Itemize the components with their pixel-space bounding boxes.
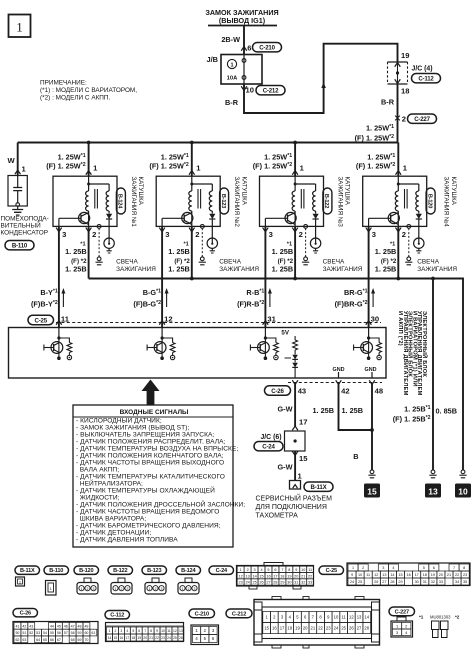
svg-text:15: 15 (264, 626, 269, 631)
connector oval C-112 (bottom strip) (105, 611, 130, 619)
svg-text:КАТУШКА: КАТУШКА (450, 177, 457, 206)
svg-text:31: 31 (423, 580, 427, 584)
svg-text:1: 1 (109, 629, 111, 633)
connector oval B-110 (5, 241, 34, 250)
svg-text:13: 13 (357, 615, 362, 620)
svg-text:2: 2 (87, 587, 89, 591)
connector drawing C-26 grid (13, 622, 98, 644)
svg-text:19: 19 (401, 51, 409, 60)
svg-text:3: 3 (194, 587, 196, 591)
svg-text:НЕЙТРАЛИЗАТОРА;: НЕЙТРАЛИЗАТОРА; (76, 479, 143, 488)
svg-text:C-212: C-212 (232, 611, 246, 617)
svg-text:16: 16 (266, 574, 270, 578)
svg-text:1: 1 (115, 587, 117, 591)
svg-text:3: 3 (93, 587, 95, 591)
svg-text:*1: *1 (419, 615, 424, 620)
ECU name vertical text (397, 311, 429, 396)
wire coil №3 pin3 to ECU pin 31 (237, 226, 277, 327)
svg-text:(F) 1. 25W*2: (F) 1. 25W*2 (149, 162, 188, 171)
svg-text:B-R: B-R (225, 98, 239, 107)
svg-text:1. 25B: 1. 25B (313, 406, 335, 415)
coil name label №2 (233, 177, 247, 228)
svg-text:1: 1 (182, 587, 184, 591)
connector oval B-11X (bottom strip) (15, 566, 40, 574)
svg-text:19: 19 (137, 636, 141, 640)
svg-text:(F) 1. 25W*2: (F) 1. 25W*2 (253, 162, 292, 171)
ECU driver transistor stage 3 (250, 324, 278, 360)
connector drawing C-25 grid (347, 563, 470, 586)
svg-text:1. 25B: 1. 25B (168, 264, 190, 273)
svg-text:23: 23 (463, 573, 467, 577)
svg-text:16: 16 (272, 626, 277, 631)
svg-text:8: 8 (150, 629, 152, 633)
svg-text:2: 2 (247, 568, 249, 572)
ignition coil unit №4 (B-120) (356, 143, 457, 279)
svg-text:30: 30 (415, 580, 419, 584)
svg-text:43: 43 (298, 387, 306, 396)
connector drawing B-11X (16, 577, 25, 586)
svg-text:2: 2 (155, 587, 157, 591)
svg-text:6: 6 (247, 44, 251, 53)
svg-text:62: 62 (15, 638, 19, 642)
svg-text:22: 22 (455, 573, 459, 577)
svg-text:1. 25B: 1. 25B (375, 264, 397, 273)
svg-text:9: 9 (295, 568, 297, 572)
svg-text:61: 61 (91, 631, 95, 635)
svg-text:11: 11 (308, 568, 312, 572)
svg-text:29: 29 (398, 580, 402, 584)
wire label B-R right (381, 98, 395, 107)
svg-text:3: 3 (382, 566, 384, 570)
pin 2 connector C-227 (395, 114, 436, 124)
svg-text:B-120: B-120 (79, 568, 93, 574)
svg-text:11: 11 (366, 573, 370, 577)
ground 15 (364, 470, 380, 498)
svg-text:15: 15 (259, 574, 263, 578)
svg-text:19: 19 (287, 574, 291, 578)
svg-text:2: 2 (188, 587, 190, 591)
svg-text:3: 3 (62, 230, 66, 239)
connector oval C-212 (bottom strip) (226, 609, 252, 618)
ignition coil unit №1 (B-124) (46, 141, 156, 279)
ignition coil unit №2 (B-123) (149, 141, 259, 279)
connector drawing B-120 (3-pin coil connector) (77, 578, 98, 594)
joint connector J/C(6) C-24 (254, 431, 308, 481)
svg-text:1: 1 (16, 20, 23, 35)
svg-text:C-227: C-227 (395, 609, 409, 615)
svg-text:23: 23 (326, 626, 331, 631)
svg-text:20: 20 (439, 573, 443, 577)
connector oval C-210 (bottom strip) (189, 609, 215, 618)
svg-text:8: 8 (288, 568, 290, 572)
svg-text:25: 25 (173, 636, 177, 640)
svg-text:21: 21 (301, 574, 305, 578)
svg-text:14: 14 (364, 615, 369, 620)
connector oval B-110 (bottom strip) (44, 566, 69, 574)
svg-text:13: 13 (382, 573, 386, 577)
svg-text:(*2) : МОДЕЛИ С АКПП.: (*2) : МОДЕЛИ С АКПП. (40, 95, 110, 102)
svg-text:ШКИВА ВАРИАТОРА;: ШКИВА ВАРИАТОРА; (76, 516, 146, 523)
svg-text:18: 18 (423, 573, 427, 577)
svg-text:ЗАЖИГАНИЯ №4: ЗАЖИГАНИЯ №4 (443, 177, 450, 228)
coil connector oval B-124 (116, 188, 125, 214)
svg-text:68: 68 (71, 638, 75, 642)
svg-text:2: 2 (299, 230, 303, 239)
svg-text:13: 13 (428, 486, 438, 496)
svg-text:B-R: B-R (381, 98, 395, 107)
svg-text:4: 4 (260, 568, 262, 572)
svg-text:B-110: B-110 (12, 243, 28, 250)
svg-text:1: 1 (240, 568, 242, 572)
svg-text:29: 29 (280, 581, 284, 585)
ignition coil unit №3 (B-122) (253, 141, 363, 279)
svg-text:1: 1 (81, 587, 83, 591)
svg-text:B-11X: B-11X (20, 568, 35, 574)
svg-text:B: B (353, 452, 358, 461)
svg-text:2: 2 (92, 230, 96, 239)
svg-text:J/C (6): J/C (6) (260, 434, 281, 441)
svg-text:23: 23 (239, 581, 243, 585)
svg-text:- ДАТЧИК ЧАСТОТЫ ВРАЩЕНИЯ ВЕДО: - ДАТЧИК ЧАСТОТЫ ВРАЩЕНИЯ ВЕДОМОГО (76, 509, 219, 516)
svg-text:5: 5 (423, 566, 425, 570)
svg-text:ЗАЖИГАНИЯ №1: ЗАЖИГАНИЯ №1 (130, 177, 137, 228)
svg-text:48: 48 (375, 387, 383, 396)
note MU801303 terminals (419, 615, 460, 638)
svg-text:C-26: C-26 (271, 388, 284, 395)
svg-text:27: 27 (357, 626, 362, 631)
svg-text:14: 14 (252, 574, 256, 578)
svg-text:10A: 10A (227, 76, 238, 82)
ECU bottom connector rail C-26 (265, 380, 384, 395)
svg-text:GND: GND (365, 367, 377, 373)
svg-text:7: 7 (281, 568, 283, 572)
svg-text:- ЗАМОК ЗАЖИГАНИЯ (ВЫВОД ST);: - ЗАМОК ЗАЖИГАНИЯ (ВЫВОД ST); (76, 425, 189, 432)
svg-text:49: 49 (84, 624, 88, 628)
svg-text:11: 11 (167, 629, 171, 633)
svg-text:53: 53 (36, 631, 40, 635)
svg-text:СВЕЧА: СВЕЧА (116, 259, 138, 266)
svg-text:ЗАЖИГАНИЯ №2: ЗАЖИГАНИЯ №2 (233, 177, 240, 228)
svg-text:B-123: B-123 (220, 194, 226, 208)
svg-text:15: 15 (367, 486, 377, 496)
svg-text:1: 1 (149, 587, 151, 591)
svg-text:C-212: C-212 (263, 88, 279, 95)
svg-text:32: 32 (301, 581, 305, 585)
svg-text:B-120: B-120 (426, 194, 432, 208)
svg-text:59: 59 (78, 631, 82, 635)
svg-text:B-124: B-124 (181, 568, 196, 574)
svg-text:17: 17 (125, 636, 129, 640)
svg-text:ВХОДНЫЕ СИГНАЛЫ: ВХОДНЫЕ СИГНАЛЫ (120, 409, 189, 416)
svg-text:- ДАТЧИК ПОЛОЖЕНИЯ КОЛЕНЧАТОГО: - ДАТЧИК ПОЛОЖЕНИЯ КОЛЕНЧАТОГО ВАЛА; (76, 453, 224, 460)
wire coil №2 pin3 to ECU pin 12 (133, 226, 172, 327)
svg-text:8: 8 (463, 566, 465, 570)
svg-text:ЗАЖИГАНИЯ: ЗАЖИГАНИЯ (116, 266, 156, 273)
svg-text:19: 19 (295, 626, 300, 631)
svg-text:G-W: G-W (278, 405, 293, 414)
svg-text:41: 41 (15, 624, 19, 628)
svg-text:22: 22 (308, 574, 312, 578)
supply bus node (18, 142, 399, 144)
svg-text:42: 42 (341, 387, 349, 396)
svg-text:15: 15 (114, 636, 118, 640)
svg-text:16: 16 (119, 636, 123, 640)
wires pins 42/48 to ground 15 (313, 383, 374, 471)
connector drawing B-110 (46, 581, 57, 596)
ECU driver transistor stage 4 (354, 324, 382, 360)
svg-text:17: 17 (273, 574, 277, 578)
svg-text:СЕРВИСНЫЙ РАЗЪЕМ: СЕРВИСНЫЙ РАЗЪЕМ (256, 494, 333, 503)
svg-text:20: 20 (143, 636, 147, 640)
connector drawing B-122 (3-pin coil connector) (111, 578, 132, 594)
ECU 5V pull-up and diodes (pin 43) (281, 330, 297, 379)
ECU driver transistor stage 2 (147, 324, 175, 360)
connector drawing C-24 grid (237, 563, 314, 590)
svg-text:50: 50 (15, 631, 19, 635)
ground 13 (425, 470, 441, 498)
wire coil №4 pin3 to ECU pin 30 (335, 226, 379, 327)
pin 6 connector C-210 (241, 43, 281, 53)
connector oval B-124 (bottom strip) (176, 566, 201, 574)
svg-text:СВЕЧА: СВЕЧА (323, 259, 345, 266)
wire J/B to J/C(4) (244, 44, 398, 113)
svg-text:12: 12 (173, 629, 177, 633)
svg-text:18: 18 (280, 574, 284, 578)
connector oval B-123 (bottom strip) (142, 566, 167, 574)
svg-text:25: 25 (358, 580, 362, 584)
connector oval B-120 (bottom strip) (74, 566, 99, 574)
svg-text:B-122: B-122 (113, 568, 127, 574)
svg-text:1. 25B: 1. 25B (375, 247, 397, 256)
wire pin 43 to J/C(6) (278, 383, 308, 431)
svg-text:СВЕЧА: СВЕЧА (219, 259, 241, 266)
svg-text:28: 28 (390, 580, 394, 584)
svg-text:21: 21 (311, 626, 316, 631)
svg-text:ПОМЕХОПОДА-: ПОМЕХОПОДА- (1, 216, 49, 223)
svg-text:10: 10 (458, 486, 468, 496)
wire label 2B-W (221, 35, 240, 44)
coil connector oval B-120 (426, 188, 435, 214)
svg-text:64: 64 (36, 638, 40, 642)
svg-text:16: 16 (406, 573, 410, 577)
svg-text:60: 60 (84, 631, 88, 635)
svg-text:W: W (8, 156, 16, 165)
svg-text:J/B: J/B (206, 55, 218, 64)
svg-text:7: 7 (453, 566, 455, 570)
svg-text:1. 25B: 1. 25B (65, 247, 87, 256)
ECU driver transistor stage 1 (44, 324, 72, 360)
svg-text:14: 14 (108, 636, 112, 640)
svg-text:2: 2 (195, 230, 199, 239)
svg-text:52: 52 (29, 631, 33, 635)
svg-text:35: 35 (463, 580, 467, 584)
svg-text:10: 10 (246, 86, 254, 95)
svg-text:ЗАЖИГАНИЯ: ЗАЖИГАНИЯ (219, 266, 259, 273)
svg-text:- ДАТЧИК ТЕМПЕРАТУРЫ КАТАЛИТИЧ: - ДАТЧИК ТЕМПЕРАТУРЫ КАТАЛИТИЧЕСКОГО (76, 474, 225, 481)
svg-text:55: 55 (50, 631, 54, 635)
svg-text:15: 15 (299, 454, 308, 463)
svg-text:1. 25B: 1. 25B (342, 406, 364, 415)
connector drawing C-227 (391, 617, 413, 637)
svg-text:(F) 1. 25W*2: (F) 1. 25W*2 (356, 162, 395, 171)
ECU GND pins 42 and 48 (333, 367, 377, 378)
svg-text:15: 15 (398, 573, 402, 577)
svg-text:7: 7 (144, 629, 146, 633)
coil name label №3 (336, 177, 350, 228)
svg-text:- ВЫКЛЮЧАТЕЛЬ ЗАПРЕЩЕНИЯ ЗАПУС: - ВЫКЛЮЧАТЕЛЬ ЗАПРЕЩЕНИЯ ЗАПУСКА; (76, 432, 214, 439)
svg-text:45: 45 (57, 624, 61, 628)
svg-text:24: 24 (334, 626, 339, 631)
svg-text:C-210: C-210 (259, 45, 275, 52)
svg-text:3: 3 (165, 230, 169, 239)
svg-text:5V: 5V (281, 330, 289, 337)
svg-text:ТАХОМЕТРА: ТАХОМЕТРА (256, 513, 299, 520)
svg-text:30: 30 (371, 314, 379, 323)
connector oval C-25 (bottom strip) (319, 566, 344, 574)
svg-text:69: 69 (78, 638, 82, 642)
svg-text:11: 11 (61, 314, 70, 323)
svg-text:3: 3 (127, 587, 129, 591)
svg-text:C-112: C-112 (418, 76, 434, 83)
svg-text:- КИСЛОРОДНЫЙ ДАТЧИК;: - КИСЛОРОДНЫЙ ДАТЧИК; (76, 416, 162, 425)
svg-text:3: 3 (120, 629, 122, 633)
sheet number box 1 (9, 15, 31, 38)
ground bus node (89, 277, 463, 470)
svg-text:10: 10 (358, 573, 362, 577)
svg-text:24: 24 (246, 581, 250, 585)
noise suppression capacitor B-110 (8, 143, 28, 216)
svg-text:19: 19 (431, 573, 435, 577)
svg-text:30: 30 (287, 581, 291, 585)
svg-text:КАТУШКА: КАТУШКА (137, 177, 144, 206)
svg-text:13: 13 (246, 574, 250, 578)
capacitor name text (1, 216, 49, 237)
ECU box (engine control unit) (9, 323, 387, 379)
svg-text:ЗАЖИГАНИЯ: ЗАЖИГАНИЯ (417, 266, 457, 273)
svg-text:26: 26 (374, 580, 378, 584)
svg-text:33: 33 (308, 581, 312, 585)
svg-text:0. 85B: 0. 85B (436, 407, 458, 416)
svg-text:ЗАЖИГАНИЯ: ЗАЖИГАНИЯ (323, 266, 363, 273)
svg-text:- ДАТЧИК ЧАСТОТЫ ВРАЩЕНИЯ ВЫХО: - ДАТЧИК ЧАСТОТЫ ВРАЩЕНИЯ ВЫХОДНОГО (76, 460, 224, 467)
svg-text:6: 6 (274, 568, 276, 572)
svg-text:C-25: C-25 (326, 568, 337, 574)
svg-text:- ДАТЧИК ДЕТОНАЦИИ;: - ДАТЧИК ДЕТОНАЦИИ; (76, 530, 151, 537)
svg-text:4: 4 (392, 566, 394, 570)
svg-text:B-123: B-123 (147, 568, 161, 574)
svg-text:67: 67 (57, 638, 61, 642)
svg-text:18: 18 (287, 626, 292, 631)
ground 10 label 0.85B (436, 406, 462, 416)
svg-text:9: 9 (156, 629, 158, 633)
svg-text:- ДАТЧИК ТЕМПЕРАТУРЫ ОХЛАЖДАЮЩ: - ДАТЧИК ТЕМПЕРАТУРЫ ОХЛАЖДАЮЩЕЙ (76, 486, 215, 495)
svg-text:31: 31 (294, 581, 298, 585)
svg-text:12: 12 (164, 314, 172, 323)
svg-text:13: 13 (179, 629, 183, 633)
svg-text:17: 17 (299, 418, 307, 427)
coil name label №1 (130, 177, 144, 228)
svg-text:43: 43 (29, 624, 33, 628)
svg-text:42: 42 (22, 624, 26, 628)
svg-text:2: 2 (114, 629, 116, 633)
svg-text:2: 2 (402, 115, 406, 124)
svg-text:65: 65 (43, 638, 47, 642)
connector drawing C-210 grid (191, 625, 219, 645)
svg-text:9: 9 (351, 573, 353, 577)
svg-text:ЗАЖИГАНИЯ №3: ЗАЖИГАНИЯ №3 (336, 177, 343, 228)
coil name label №4 (443, 177, 457, 228)
svg-text:26: 26 (259, 581, 263, 585)
svg-text:6: 6 (138, 629, 140, 633)
svg-text:B-122: B-122 (323, 194, 329, 208)
junction block J/B with fuse 1 (10A) (206, 55, 262, 85)
svg-text:51: 51 (22, 631, 26, 635)
svg-text:1. 25B: 1. 25B (272, 264, 294, 273)
svg-text:СВЕЧА: СВЕЧА (417, 259, 439, 266)
ground 10 (455, 470, 471, 498)
svg-text:33: 33 (439, 580, 443, 584)
svg-text:(ВЫВОД IG1): (ВЫВОД IG1) (219, 16, 266, 25)
svg-text:31: 31 (267, 314, 276, 323)
ground 13 labels (393, 405, 431, 424)
svg-text:10: 10 (334, 615, 339, 620)
connector drawing B-123 (3-pin coil connector) (145, 578, 166, 594)
pin 10 connector C-212 (241, 86, 285, 95)
connector oval C-227 (bottom strip) (389, 607, 415, 616)
svg-text:10: 10 (301, 568, 305, 572)
svg-text:И АКПП (*2): И АКПП (*2) (397, 311, 403, 346)
connector drawing C-112 grid (106, 623, 184, 642)
svg-text:2: 2 (402, 230, 406, 239)
svg-text:ЖИДКОСТИ;: ЖИДКОСТИ; (76, 495, 120, 502)
svg-text:32: 32 (431, 580, 435, 584)
svg-text:1. 25B: 1. 25B (168, 247, 190, 256)
svg-text:(*1) : МОДЕЛИ С ВАРИАТОРОМ,: (*1) : МОДЕЛИ С ВАРИАТОРОМ, (40, 87, 137, 94)
svg-text:24: 24 (167, 636, 171, 640)
ground wire 13 (432, 279, 434, 471)
svg-text:3: 3 (372, 230, 376, 239)
svg-text:ПРИМЕЧАНИЕ:: ПРИМЕЧАНИЕ: (40, 80, 87, 87)
connector oval B-122 (bottom strip) (108, 566, 133, 574)
svg-text:21: 21 (447, 573, 451, 577)
svg-text:1: 1 (230, 62, 233, 68)
svg-text:12: 12 (374, 573, 378, 577)
ignition switch label (ZAMOK ZAZHIGANIYA) (205, 8, 278, 26)
svg-text:- ДАТЧИК ПОЛОЖЕНИЯ ДРОССЕЛЬНОЙ: - ДАТЧИК ПОЛОЖЕНИЯ ДРОССЕЛЬНОЙ ЗАСЛОНКИ; (76, 500, 245, 509)
svg-text:(F) 1. 25W*2: (F) 1. 25W*2 (46, 162, 85, 171)
svg-text:C-24: C-24 (262, 444, 275, 451)
svg-text:(F) 1. 25B*2: (F) 1. 25B*2 (393, 415, 431, 424)
svg-text:25: 25 (341, 626, 346, 631)
svg-text:22: 22 (318, 626, 323, 631)
coil connector oval B-122 (323, 188, 332, 214)
svg-text:10: 10 (161, 629, 165, 633)
svg-text:3: 3 (254, 568, 256, 572)
svg-text:G-W: G-W (278, 463, 293, 472)
svg-text:44: 44 (50, 624, 54, 628)
svg-text:1: 1 (352, 566, 354, 570)
svg-text:20: 20 (303, 626, 308, 631)
svg-text:B-110: B-110 (49, 568, 63, 574)
svg-text:47: 47 (71, 624, 75, 628)
svg-text:- ДАТЧИК ТЕМПЕРАТУРЫ ВОЗДУХА Н: - ДАТЧИК ТЕМПЕРАТУРЫ ВОЗДУХА НА ВПРЫСКЕ; (76, 446, 238, 453)
svg-text:КОНДЕНСАТОР: КОНДЕНСАТОР (1, 230, 49, 237)
svg-text:КАТУШКА: КАТУШКА (344, 177, 351, 206)
connector oval C-25 (28, 315, 54, 324)
svg-text:6: 6 (433, 566, 435, 570)
svg-text:17: 17 (415, 573, 419, 577)
wire coil №1 pin3 to ECU pin 11 (31, 226, 70, 327)
